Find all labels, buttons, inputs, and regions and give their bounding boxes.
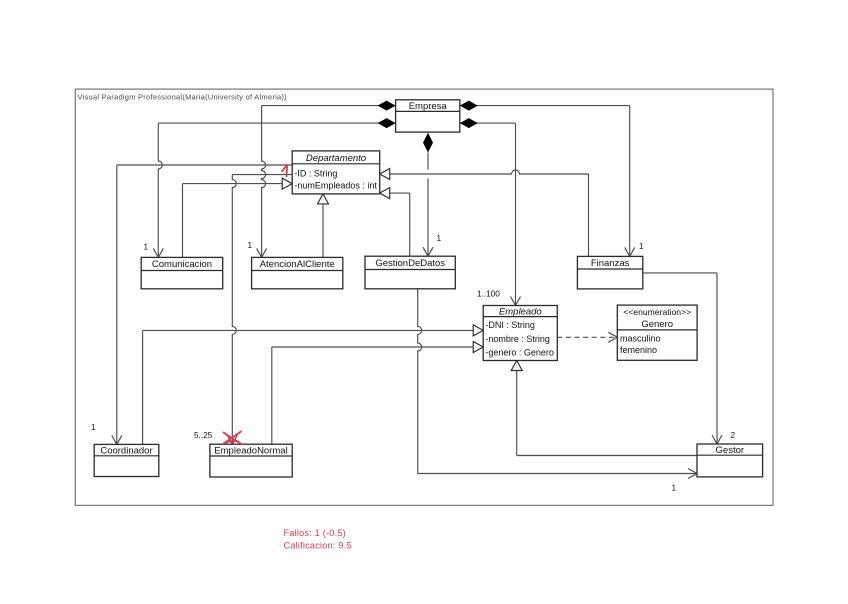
svg-text:Finanzas: Finanzas: [591, 258, 630, 269]
svg-text:Calificacion: 9.5: Calificacion: 9.5: [284, 540, 352, 550]
svg-text:Fallos: 1 (-0.5): Fallos: 1 (-0.5): [284, 528, 346, 538]
svg-text:Comunicacion: Comunicacion: [152, 259, 212, 270]
svg-text:2: 2: [731, 431, 736, 440]
svg-text:-nombre : String: -nombre : String: [485, 334, 550, 344]
svg-text:-DNI : String: -DNI : String: [485, 320, 535, 330]
svg-text:masculino: masculino: [620, 333, 661, 343]
svg-text:Departamento: Departamento: [306, 153, 366, 164]
svg-text:<<enumeration>>: <<enumeration>>: [623, 307, 691, 317]
svg-text:1: 1: [248, 241, 253, 250]
svg-text:-genero : Genero: -genero : Genero: [485, 347, 554, 357]
svg-text:1: 1: [672, 484, 677, 493]
svg-text:GestionDeDatos: GestionDeDatos: [375, 258, 445, 269]
svg-text:1: 1: [639, 242, 644, 251]
svg-text:Coordinador: Coordinador: [100, 446, 152, 457]
svg-text:Empleado: Empleado: [499, 307, 542, 318]
svg-text:1: 1: [144, 243, 149, 252]
svg-text:Genero: Genero: [641, 319, 673, 330]
svg-text:femenino: femenino: [620, 345, 657, 355]
svg-text:1..100: 1..100: [477, 290, 500, 299]
svg-text:Gestor: Gestor: [716, 445, 745, 456]
svg-text:-ID : String: -ID : String: [294, 169, 337, 179]
svg-text:AtencionAlCliente: AtencionAlCliente: [260, 259, 335, 270]
svg-text:1: 1: [91, 423, 96, 432]
svg-text:Empresa: Empresa: [409, 101, 448, 112]
svg-text:5..25: 5..25: [194, 431, 213, 440]
svg-text:EmpleadoNormal: EmpleadoNormal: [214, 446, 287, 457]
svg-text:Visual Paradigm Professional(M: Visual Paradigm Professional(Maria(Unive…: [78, 93, 288, 102]
svg-text:1: 1: [437, 234, 442, 243]
svg-text:-numEmpleados : int: -numEmpleados : int: [294, 181, 377, 191]
